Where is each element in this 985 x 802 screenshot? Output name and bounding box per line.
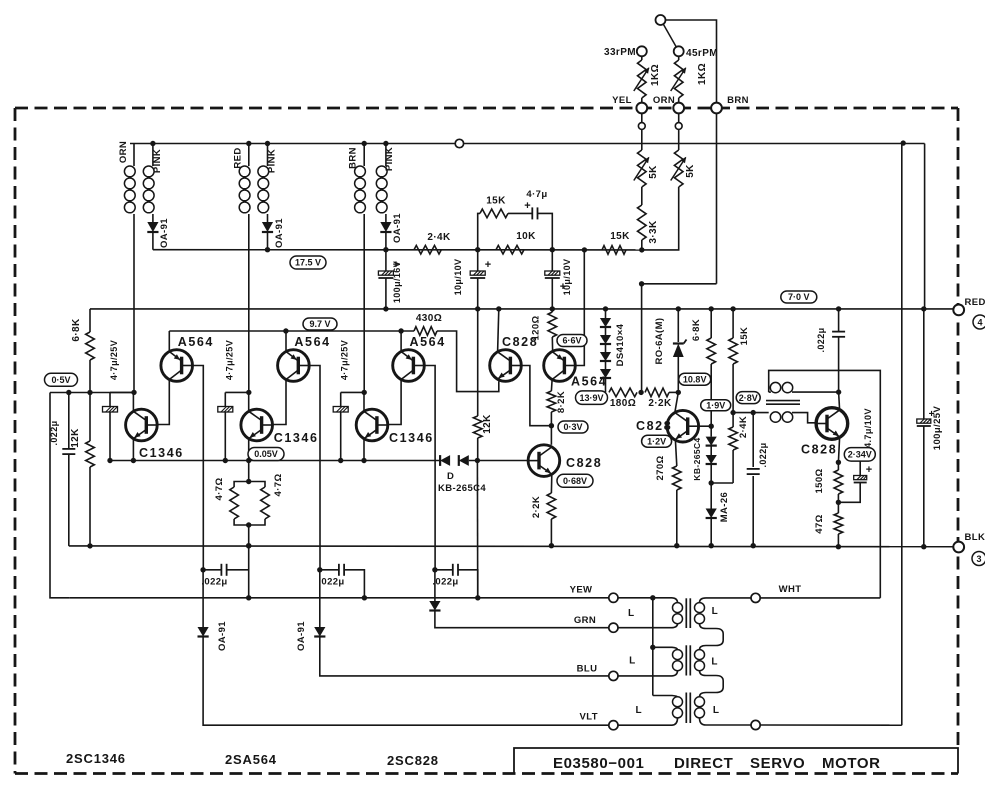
interstage transformer top winding bbox=[770, 382, 780, 392]
oval 1.2V bbox=[642, 435, 672, 447]
circled terminal 3 bbox=[972, 552, 985, 566]
oval 6.6V bbox=[557, 335, 587, 347]
junction A564-3 emitter bbox=[398, 328, 403, 333]
wire stage1 base drop to diode bbox=[202, 570, 204, 627]
wire A564 Q5 base right and up bbox=[575, 250, 584, 366]
svg-text:10μ/10V: 10μ/10V bbox=[562, 259, 572, 296]
svg-text:1KΩ: 1KΩ bbox=[697, 63, 708, 85]
junction PINK 2 on rail bbox=[265, 141, 270, 146]
svg-text:15K: 15K bbox=[610, 231, 630, 242]
wire C1346 Q3 emitter down bbox=[363, 439, 365, 461]
diodes KB-265C4 right bbox=[710, 426, 712, 436]
svg-text:.022μ: .022μ bbox=[49, 420, 59, 445]
motor transformer T3 core bbox=[685, 693, 687, 724]
resistor 15K horizontal bbox=[602, 246, 626, 255]
wire A564 Q3 collector down bbox=[388, 380, 401, 425]
svg-text:5K: 5K bbox=[685, 164, 696, 178]
svg-text:8·2K: 8·2K bbox=[556, 391, 567, 413]
wire stage1 node horizontal bbox=[110, 391, 134, 393]
svg-text:ORN: ORN bbox=[653, 95, 675, 106]
BLU line wire bbox=[320, 637, 609, 676]
open circle YEW bbox=[609, 593, 618, 602]
junction 4.7ohm bottom bbox=[246, 522, 251, 527]
wire T3 primary bottom to VLT bbox=[618, 718, 678, 725]
terminal RED bbox=[953, 305, 964, 316]
diode OA-91 bottom 2 bbox=[314, 627, 325, 637]
svg-text:1·9V: 1·9V bbox=[706, 400, 725, 410]
junction stage1 input node bbox=[131, 390, 136, 395]
svg-text:10K: 10K bbox=[516, 231, 536, 242]
junction 100u25V top bbox=[921, 306, 926, 311]
coil PINK 2 bbox=[258, 166, 269, 177]
svg-text:13·9V: 13·9V bbox=[579, 393, 603, 403]
junction stage1 left on emitter line bbox=[107, 458, 112, 463]
wire diode 3 to 17.5V line bbox=[385, 232, 387, 250]
svg-text:KB-265C4: KB-265C4 bbox=[692, 437, 702, 480]
oval 2.8V bbox=[736, 392, 760, 404]
transistor C828 Q3 bbox=[528, 445, 560, 477]
junction 0.5V cap bbox=[66, 390, 71, 395]
junction .022u top right bbox=[836, 306, 841, 311]
svg-text:4·7μ: 4·7μ bbox=[526, 189, 547, 200]
wire 3.3K to node bbox=[641, 240, 643, 250]
oval 7.0 V bbox=[781, 291, 817, 303]
svg-text:YEW: YEW bbox=[570, 585, 593, 596]
wire diode 2 to 17.5V line bbox=[267, 232, 269, 250]
junction diode3 / 100u16V bbox=[383, 247, 388, 252]
svg-text:OA-91: OA-91 bbox=[274, 218, 285, 248]
wire T2 sec bottom to T3 sec top link bbox=[700, 671, 724, 697]
transistor A564 Q2 bbox=[278, 350, 310, 382]
motor transformer T3 secondary bbox=[695, 697, 705, 707]
diode OA-91 bottom 1 bbox=[198, 627, 209, 637]
wire PINK 3 top bbox=[385, 144, 387, 167]
svg-text:270Ω: 270Ω bbox=[655, 455, 666, 480]
junction zener bottom bbox=[676, 390, 681, 395]
wire YEL chain down to 5K pot bbox=[641, 129, 643, 150]
svg-text:L: L bbox=[628, 608, 635, 619]
wire 0.5V node horizontal bbox=[50, 392, 134, 394]
wire 4.7u to node bbox=[538, 213, 553, 249]
wire 8.2K to 0.3V junction bbox=[550, 412, 552, 445]
interstage transformer core bbox=[766, 400, 800, 402]
wire between 5K and 3.3K bbox=[641, 187, 643, 205]
svg-text:ORN: ORN bbox=[118, 141, 129, 163]
junction BRN jog bbox=[639, 281, 644, 286]
svg-text:2·8V: 2·8V bbox=[739, 393, 758, 403]
svg-text:+: + bbox=[485, 259, 491, 271]
junction stage3 left on emitter line bbox=[338, 458, 343, 463]
svg-text:DS410×4: DS410×4 bbox=[615, 323, 626, 366]
svg-text:4·7Ω: 4·7Ω bbox=[273, 474, 284, 497]
oval 0.5V bbox=[45, 373, 78, 386]
resistor 270 ohm bbox=[673, 466, 682, 490]
svg-text:2·2K: 2·2K bbox=[648, 398, 672, 409]
svg-text:.022μ: .022μ bbox=[758, 442, 768, 467]
junction C1346 Q2 emitter bbox=[246, 458, 251, 463]
svg-text:C1346: C1346 bbox=[389, 431, 434, 445]
wire 430ohm to C828-1 emitter bbox=[437, 331, 499, 392]
ground rail wire bbox=[69, 545, 959, 548]
oval 9.7 V bbox=[303, 318, 337, 330]
svg-text:GRN: GRN bbox=[574, 615, 596, 626]
svg-text:5K: 5K bbox=[648, 165, 659, 179]
junction 12K left ground bbox=[87, 543, 92, 548]
VLT line wire bbox=[203, 637, 609, 726]
capacitor 100u/16V bbox=[385, 250, 387, 271]
wire RED coil top bbox=[248, 144, 250, 167]
diode OA-91 2 bbox=[262, 222, 273, 232]
svg-text:1·2V: 1·2V bbox=[647, 436, 666, 446]
wire 15K to 2.8V node bbox=[732, 364, 734, 413]
svg-text:3: 3 bbox=[976, 554, 981, 564]
wire A564 Q1 base right and down bbox=[193, 366, 204, 570]
wire A564 Q1 collector down bbox=[157, 380, 169, 425]
transistor C828 Q5 bbox=[816, 408, 848, 440]
junction YEW node bbox=[650, 595, 655, 600]
wire cap1 right up to ground rail bbox=[248, 546, 250, 570]
svg-text:2SA564: 2SA564 bbox=[225, 752, 277, 767]
motor transformer T1 primary bbox=[673, 603, 683, 613]
wire 150 to 47 bbox=[837, 494, 839, 513]
transistor C1346 Q2 bbox=[241, 409, 273, 441]
junction stage3 input node bbox=[362, 390, 367, 395]
svg-text:9.7 V: 9.7 V bbox=[309, 319, 330, 329]
wire BRN coil top bbox=[363, 144, 365, 167]
resistor 12K middle bbox=[477, 309, 479, 416]
terminal BRN on border bbox=[711, 103, 722, 114]
svg-text:10μ/10V: 10μ/10V bbox=[453, 259, 463, 296]
wire ORN coil bottom down bbox=[133, 214, 135, 392]
junction diode2 bottom bbox=[265, 247, 270, 252]
wire YEW into T1 primary top bbox=[672, 598, 678, 603]
wire PINK 3 to diode bbox=[385, 214, 387, 222]
wire A564 Q2 base right and down bbox=[309, 366, 320, 570]
wire T3 primary top lead bbox=[653, 696, 678, 697]
open circle BLU bbox=[609, 671, 618, 680]
wire stage2 node horizontal bbox=[225, 391, 249, 393]
capacitor .022u right bbox=[752, 413, 754, 467]
dashed border frame bbox=[15, 108, 958, 774]
svg-text:6·8K: 6·8K bbox=[71, 318, 82, 342]
branch 15K/4.7u top bbox=[478, 213, 480, 249]
svg-text:15K: 15K bbox=[486, 196, 506, 207]
capacitor .022u bottom 1 bbox=[203, 569, 221, 571]
wire 12K below to bottom cap bbox=[476, 461, 478, 596]
potentiometer 1K-ohm (45rPM) bbox=[678, 56, 680, 60]
svg-text:2·4K: 2·4K bbox=[427, 232, 451, 243]
resistor 430 ohm bbox=[414, 327, 437, 336]
svg-text:6·6V: 6·6V bbox=[562, 336, 581, 346]
junction cap1 left bbox=[200, 567, 205, 572]
wire KB bottom to 2.4K bottom bbox=[711, 482, 733, 484]
svg-text:0·68V: 0·68V bbox=[563, 476, 587, 486]
circle 45rPM bbox=[674, 46, 684, 56]
svg-text:L: L bbox=[711, 657, 718, 668]
svg-text:3·3K: 3·3K bbox=[648, 220, 659, 244]
capacitor .022u top right bbox=[838, 309, 840, 332]
wire top winding left up and over bbox=[769, 370, 881, 598]
resistor 8.2K bbox=[547, 391, 556, 412]
junction cap3 right on YEW line bbox=[475, 595, 480, 600]
wire 2.4K bottom bbox=[732, 450, 734, 483]
wire A564 Q3 emitter to 9.7V rail bbox=[400, 331, 402, 352]
coil PINK 1 bbox=[143, 166, 154, 177]
svg-text:VLT: VLT bbox=[579, 712, 597, 723]
wire C1346 Q1 collector up bbox=[132, 392, 134, 411]
svg-text:2SC828: 2SC828 bbox=[387, 753, 439, 768]
open circle on top rail bbox=[455, 139, 463, 147]
wire PINK 2 to diode bbox=[267, 214, 269, 222]
transistor A564 Q5 bbox=[544, 350, 576, 382]
svg-text:A564: A564 bbox=[571, 375, 607, 389]
svg-text:A564: A564 bbox=[410, 335, 446, 349]
svg-text:OA-91: OA-91 bbox=[392, 213, 403, 243]
svg-text:100μ/25V: 100μ/25V bbox=[932, 406, 943, 451]
svg-text:12K: 12K bbox=[70, 428, 81, 448]
switch lever bbox=[664, 25, 677, 47]
junction stage2 ground bbox=[246, 543, 251, 548]
junction transformer right to cap bbox=[836, 389, 841, 394]
resistor 150 ohm bbox=[837, 462, 839, 470]
wire 2.2K to ground rail bbox=[550, 519, 552, 546]
svg-text:L: L bbox=[712, 606, 719, 617]
capacitor .022u bottom 3 bbox=[435, 569, 453, 571]
svg-text:.022μ: .022μ bbox=[816, 327, 826, 352]
svg-text:BRN: BRN bbox=[348, 147, 359, 169]
resistor 15K right bbox=[732, 309, 734, 338]
junction BRN on rail bbox=[362, 141, 367, 146]
wire stage2 left vertical lower bbox=[224, 412, 226, 461]
junction 100u16V bottom bbox=[383, 306, 388, 311]
wire stage2 left vertical upper bbox=[224, 392, 226, 406]
svg-text:2·2K: 2·2K bbox=[531, 496, 542, 518]
wire switch common to BRN column bbox=[666, 20, 717, 103]
junction BRN node on 180 line bbox=[638, 390, 643, 395]
junction C828 Q5 emitter node bbox=[836, 460, 841, 465]
coil RED bbox=[239, 166, 250, 177]
junction C828-1 collector bbox=[496, 306, 501, 311]
pin circle below ORN bbox=[678, 113, 680, 122]
wire C828 Q5 collector up bbox=[839, 392, 840, 410]
feedthrough capacitor stage1 bbox=[103, 407, 118, 413]
wire C828 Q4 collector up to zener node bbox=[675, 392, 679, 412]
resistor 2.4K right bbox=[732, 413, 734, 427]
coil ORN bbox=[124, 166, 135, 177]
junction stage2 left on emitter line bbox=[223, 458, 228, 463]
junction 4.7ohm top bbox=[246, 479, 251, 484]
diode MA-26 bbox=[710, 483, 712, 509]
svg-text:C1346: C1346 bbox=[139, 446, 184, 460]
wire BRN chain down bbox=[716, 113, 718, 283]
wire stage3 base drop to diode bbox=[434, 570, 436, 601]
oval 10.8V bbox=[679, 373, 711, 385]
svg-text:.022μ: .022μ bbox=[318, 577, 344, 588]
interstage transformer bottom winding bbox=[770, 412, 780, 422]
junction 6.8K right top bbox=[709, 306, 714, 311]
terminal YEL on border bbox=[636, 103, 647, 114]
svg-text:A564: A564 bbox=[294, 335, 330, 349]
svg-text:BRN: BRN bbox=[727, 95, 749, 106]
zener diode RO-6A(M) bbox=[677, 309, 679, 342]
junction PINK 1 on rail bbox=[150, 141, 155, 146]
wire BRN jog to 180ohm node bbox=[642, 284, 717, 393]
wire base node to C828 Q4 bbox=[699, 425, 712, 427]
wire A564 Q2 emitter to 9.7V rail bbox=[285, 331, 287, 352]
open circle VLT bbox=[609, 721, 618, 730]
wire A564 Q3 base right and down bbox=[424, 366, 435, 570]
svg-text:MA-26: MA-26 bbox=[719, 492, 730, 523]
wire stage2 base drop to diode bbox=[319, 570, 321, 627]
wire C1346 Q1 emitter down bbox=[132, 439, 134, 461]
svg-text:RO-6A(M): RO-6A(M) bbox=[654, 318, 665, 365]
svg-text:45rPM: 45rPM bbox=[686, 48, 718, 59]
junction 270 ground bbox=[674, 543, 679, 548]
svg-text:D: D bbox=[447, 471, 454, 482]
resistor 6.8K left bbox=[89, 309, 91, 332]
svg-text:MOTOR: MOTOR bbox=[822, 755, 881, 772]
circle 33rPM bbox=[637, 46, 647, 56]
junction 10u-1 bottom bbox=[475, 306, 480, 311]
junction 47 ground bbox=[836, 544, 841, 549]
pin circle below YEL bbox=[641, 113, 643, 122]
junction 150/47 node bbox=[836, 500, 841, 505]
wire diode 1 to 17.5V line bbox=[152, 232, 154, 250]
wire stage3 node horizontal bbox=[341, 391, 365, 393]
diode stack DS410x4 bbox=[605, 309, 607, 318]
svg-text:BLU: BLU bbox=[577, 664, 598, 675]
coil BRN bbox=[355, 166, 366, 177]
svg-text:6·8K: 6·8K bbox=[691, 319, 702, 341]
open circle VLT return bbox=[751, 720, 760, 729]
svg-text:7·0 V: 7·0 V bbox=[788, 292, 810, 302]
wire stage3 left vertical lower bbox=[340, 412, 342, 461]
transistor A564 Q1 bbox=[161, 350, 193, 382]
svg-text:.022μ: .022μ bbox=[432, 577, 458, 588]
wire C828 Q4 emitter down to 270 ohm bbox=[675, 440, 676, 466]
wire C1346 Q2 emitter down bbox=[248, 439, 250, 461]
resistor 2.2K speed line bbox=[645, 388, 669, 397]
junction YEL chain node bbox=[639, 247, 644, 252]
junction 0.3V node bbox=[549, 423, 554, 428]
resistor 4.7ohm left bbox=[234, 482, 249, 488]
oval 0.05V bbox=[248, 448, 284, 461]
wire PINK 1 to diode bbox=[152, 214, 154, 222]
capacitor .022u left bbox=[68, 393, 70, 449]
potentiometer 5K (45rPM chain) bbox=[678, 129, 680, 150]
open circle WHT bbox=[751, 593, 760, 602]
coil PINK 3 bbox=[376, 166, 387, 177]
wire A564 Q1 emitter to 9.7V rail bbox=[168, 331, 170, 352]
diode OA-91 3 bbox=[380, 222, 391, 232]
capacitor 4.7u/10V bbox=[859, 461, 861, 476]
svg-text:10.8V: 10.8V bbox=[683, 374, 707, 384]
junction 15K right top bbox=[730, 306, 735, 311]
svg-text:BLK: BLK bbox=[965, 532, 985, 543]
resistor 15K branch bbox=[480, 209, 508, 218]
resistor 3.3K bbox=[638, 205, 647, 240]
long vertical wire right side (rail to VLT return) bbox=[901, 143, 903, 725]
resistor 12K left bbox=[89, 393, 91, 442]
junction cap2 right on YEW line bbox=[362, 595, 367, 600]
wire stage1 left vertical upper bbox=[109, 392, 111, 406]
junction DS410 top bbox=[603, 306, 608, 311]
wire 0.5V left vertical to YEW bbox=[50, 393, 70, 598]
oval 0.3V bbox=[558, 421, 588, 433]
wire RED coil bottom down bbox=[248, 214, 250, 392]
wire WHT to right vertical bbox=[760, 597, 880, 599]
svg-text:4: 4 bbox=[977, 318, 982, 328]
svg-text:0·3V: 0·3V bbox=[563, 422, 582, 432]
motor transformer T2 secondary bbox=[695, 650, 705, 660]
svg-text:15K: 15K bbox=[739, 327, 750, 346]
wire stage3 left vertical upper bbox=[340, 392, 342, 406]
wire C1346-2 emitter to 4.7ohm pair bbox=[248, 461, 250, 482]
wire 45rPM chain to node line bbox=[642, 187, 679, 250]
capacitor 10u/10V second bbox=[551, 250, 553, 271]
terminal BLK bbox=[953, 542, 964, 553]
resistor 2.4K bbox=[414, 245, 441, 254]
svg-text:WHT: WHT bbox=[779, 584, 802, 595]
wire VLT return to long vertical bbox=[760, 724, 902, 726]
junction PINK 3 on rail bbox=[383, 141, 388, 146]
svg-text:+: + bbox=[866, 464, 872, 476]
junction stage2 input node bbox=[246, 390, 251, 395]
svg-text:2SC1346: 2SC1346 bbox=[66, 751, 126, 766]
junction C1346 Q1 emitter bbox=[131, 458, 136, 463]
svg-text:DIRECT: DIRECT bbox=[674, 755, 733, 772]
junction A564-5 base node bbox=[582, 247, 587, 252]
wire 2.2K to zener bottom bbox=[669, 391, 678, 393]
transistor A564 Q3 bbox=[393, 350, 425, 382]
wire BRN coil bottom down bbox=[363, 214, 365, 392]
wire PINK 1 top bbox=[152, 144, 154, 167]
svg-text:C828: C828 bbox=[566, 456, 602, 470]
diode OA-91 1 bbox=[147, 222, 158, 232]
capacitor 4.7u bbox=[531, 207, 533, 219]
svg-text:17.5 V: 17.5 V bbox=[295, 258, 321, 268]
junction C1346 Q3 emitter bbox=[361, 458, 366, 463]
wire 270ohm to ground rail bbox=[676, 490, 678, 546]
resistor 6.8K right bbox=[710, 309, 712, 338]
wire 4.7ohm to ground rail bbox=[248, 525, 250, 546]
potentiometer 5K (YEL chain) bbox=[638, 150, 647, 187]
wire diode pair to C828-3 base bbox=[469, 460, 528, 462]
svg-text:C1346: C1346 bbox=[274, 431, 319, 445]
svg-text:4·7Ω: 4·7Ω bbox=[214, 478, 225, 501]
svg-text:YEL: YEL bbox=[612, 95, 632, 106]
svg-text:OA-91: OA-91 bbox=[296, 621, 307, 651]
svg-text:OA-91: OA-91 bbox=[159, 218, 170, 248]
svg-text:430Ω: 430Ω bbox=[416, 313, 442, 324]
svg-text:12K: 12K bbox=[482, 414, 493, 434]
svg-text:120Ω: 120Ω bbox=[531, 315, 542, 340]
capacitor 100u/25V bbox=[923, 309, 925, 419]
terminal ORN on border bbox=[673, 103, 684, 114]
motor transformer T1 secondary bbox=[695, 603, 705, 613]
wire 2.8V node to transformer bbox=[733, 412, 769, 414]
wire T2 primary bottom to BLU bbox=[618, 671, 678, 676]
resistor 4.7ohm right bbox=[249, 482, 265, 488]
wire C828 Q1 collector up bbox=[498, 309, 499, 352]
YEW line wire bbox=[70, 597, 609, 599]
diode D KB-265C4 left pair first bbox=[440, 455, 450, 466]
oval 2.34V bbox=[844, 448, 875, 462]
svg-text:.022μ: .022μ bbox=[201, 577, 227, 588]
9.7V rail wire bbox=[169, 330, 414, 332]
oval 13.9V bbox=[576, 391, 608, 405]
svg-text:PINK: PINK bbox=[384, 147, 395, 171]
